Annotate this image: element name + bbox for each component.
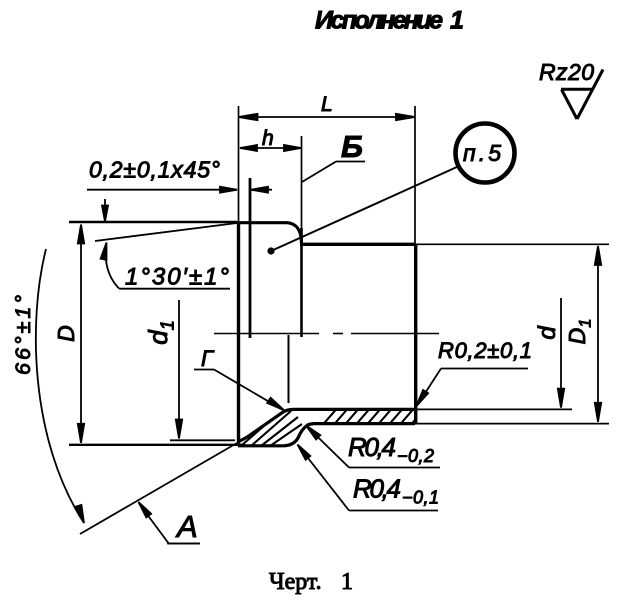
chamfer edge line — [249, 178, 252, 338]
right horizontal extension of flange top (for d) — [415, 408, 572, 410]
dimension D — [78, 225, 84, 443]
taper extension line 1:16 — [95, 223, 237, 241]
radius label г with leader — [214, 370, 284, 411]
bore edge line below axis — [288, 335, 290, 403]
note circle п.5 with leader and dot — [456, 124, 515, 183]
dimension L — [239, 114, 416, 120]
svg-text:Г: Г — [201, 346, 215, 371]
top-left horizontal extension line (thread crest, for D and 1deg30) — [69, 221, 237, 223]
roughness symbol Rz20 — [561, 70, 603, 120]
bottom-left horizontal extension line for D — [69, 444, 245, 446]
dimension d — [558, 298, 564, 408]
dimension d1 — [176, 300, 182, 439]
radius label R0,2±0,1 with leader — [417, 369, 529, 407]
face label Б with leader — [302, 162, 336, 183]
chamfer dimension 0,2±0,1x45 — [87, 187, 272, 193]
svg-text:0,2±0,1x45°: 0,2±0,1x45° — [89, 157, 220, 183]
svg-text:1: 1 — [450, 7, 464, 35]
svg-text:h: h — [262, 127, 274, 150]
svg-text:−0,2: −0,2 — [397, 446, 435, 466]
svg-text:R0,4: R0,4 — [353, 474, 401, 504]
svg-text:Б: Б — [341, 129, 363, 164]
dimension h — [240, 145, 301, 151]
extension line above left edge (for L and chamfer dim) — [238, 106, 240, 222]
part outline: step face Б (vertical edge x=301.5) — [300, 228, 303, 337]
svg-text:d: d — [534, 326, 561, 340]
part outline: right edge — [414, 244, 417, 424]
part outline: top edge of threaded (small) cylinder with fillet to step — [237, 223, 302, 244]
section/view line A — [80, 443, 237, 534]
svg-text:R0,2±0,1: R0,2±0,1 — [438, 338, 532, 363]
svg-text:1°30′±1°: 1°30′±1° — [125, 264, 229, 291]
part outline: left edge — [237, 222, 240, 444]
svg-text:Исполнение: Исполнение — [315, 7, 443, 35]
extension line above right edge (for L) — [414, 106, 416, 244]
radius label R0,4-0,2 with leader — [306, 426, 440, 468]
section hatching — [242, 406, 449, 450]
svg-text:D: D — [53, 325, 79, 342]
radius label R0,4-0,1 with leader — [298, 445, 439, 511]
dimension D1 — [595, 246, 601, 422]
flange section bottom edge — [238, 424, 415, 446]
right horizontal extension of flange bottom (for D1) — [415, 423, 609, 425]
angle dimension 66deg arc — [36, 249, 84, 523]
svg-text:Черт.: Черт. — [269, 569, 322, 595]
svg-text:−0,1: −0,1 — [402, 488, 440, 508]
flange section top edge — [238, 409, 415, 441]
view label A leader — [139, 502, 201, 544]
svg-text:L: L — [321, 93, 333, 116]
svg-text:п.5: п.5 — [463, 140, 501, 166]
svg-text:А: А — [175, 509, 198, 544]
horizontal extension line for d1 — [170, 439, 235, 441]
svg-text:1: 1 — [341, 569, 353, 595]
extension line above step face (for h) — [301, 136, 303, 228]
part outline: top edge of large cylinder — [300, 243, 416, 246]
svg-text:R0,4: R0,4 — [348, 432, 396, 462]
svg-text:Rz20: Rz20 — [539, 59, 594, 85]
right horizontal extension of top edge (for D1) — [415, 243, 609, 245]
centerline (dash-dot axis) — [214, 333, 439, 335]
angle dimension 1deg30 — [101, 199, 230, 289]
